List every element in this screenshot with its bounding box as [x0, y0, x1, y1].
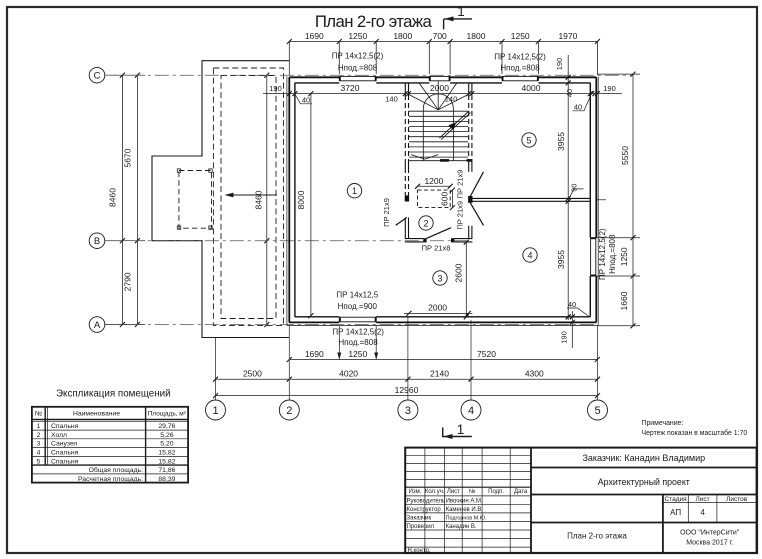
svg-text:4: 4	[527, 250, 532, 260]
window W2 stairs top	[430, 76, 450, 80]
grid line 1	[215, 338, 217, 401]
door D4	[470, 203, 483, 226]
dimension 8460 left	[120, 73, 125, 327]
svg-text:1250: 1250	[619, 247, 629, 266]
window W4 right	[591, 238, 596, 275]
stairs winder arc	[423, 94, 453, 109]
svg-text:190: 190	[269, 84, 282, 93]
wall left	[288, 77, 290, 322]
svg-text:Спальня: Спальня	[51, 450, 79, 457]
svg-text:Экспликация помещений: Экспликация помещений	[56, 389, 171, 400]
interior dimension line top	[263, 91, 622, 96]
svg-text:1: 1	[457, 422, 465, 437]
svg-text:2140: 2140	[430, 369, 449, 379]
svg-text:2: 2	[286, 405, 292, 417]
wall right	[589, 83, 591, 317]
dimension 8460 roof	[264, 73, 269, 327]
stairs bottom V	[411, 155, 438, 160]
stairs arch legs	[422, 109, 424, 161]
label 90 partition	[568, 189, 583, 200]
svg-text:5: 5	[594, 405, 600, 417]
svg-text:Площадь, м²: Площадь, м²	[148, 411, 186, 418]
dimension 8000	[308, 91, 313, 318]
svg-text:Hпод.=808: Hпод.=808	[338, 338, 378, 347]
svg-text:7520: 7520	[477, 349, 496, 359]
svg-text:Санузел: Санузел	[51, 441, 78, 448]
room circle 4	[523, 248, 537, 262]
svg-text:B: B	[94, 236, 100, 247]
arrow to bay	[225, 193, 278, 198]
svg-text:Hпод.=900: Hпод.=900	[338, 302, 378, 311]
svg-text:90: 90	[570, 184, 579, 192]
svg-text:1660: 1660	[619, 291, 629, 310]
dimension 12960	[213, 393, 600, 398]
svg-text:15,82: 15,82	[158, 450, 175, 457]
svg-text:Кол.уч.: Кол.уч.	[425, 489, 445, 495]
label 40 top-right	[573, 96, 591, 111]
svg-text:Наименование: Наименование	[73, 411, 120, 418]
svg-text:Канадин В.: Канадин В.	[446, 524, 477, 530]
dimension 2600 room3	[464, 240, 469, 320]
svg-text:ПР 14х12,5(2): ПР 14х12,5(2)	[598, 228, 607, 280]
svg-text:Лист: Лист	[696, 496, 710, 503]
dimension 2000 room3	[404, 311, 472, 316]
svg-text:Hпод.=808: Hпод.=808	[500, 63, 540, 72]
svg-text:1690: 1690	[305, 349, 324, 359]
svg-text:Проверил: Проверил	[407, 524, 435, 530]
axis line B dash-dot	[105, 240, 467, 242]
wall bottom inner	[295, 316, 590, 318]
axis line C dash-dot	[105, 74, 633, 76]
svg-text:140: 140	[445, 95, 458, 104]
svg-text:1800: 1800	[393, 31, 412, 41]
svg-text:3720: 3720	[341, 83, 360, 93]
svg-text:Н.контр.: Н.контр.	[408, 548, 431, 554]
svg-text:40: 40	[565, 89, 574, 97]
svg-text:Москва 2017 г.: Москва 2017 г.	[686, 539, 733, 546]
dimension 1200	[415, 184, 453, 189]
svg-text:8000: 8000	[296, 190, 306, 209]
svg-text:Листов: Листов	[726, 496, 748, 503]
svg-text:Подп.: Подп.	[488, 489, 504, 495]
window W3 top	[503, 76, 538, 80]
stairs direction line	[440, 111, 471, 140]
svg-text:4000: 4000	[522, 83, 541, 93]
svg-text:1200: 1200	[424, 176, 443, 186]
window W5 bottom	[340, 317, 376, 322]
svg-text:Лист: Лист	[447, 489, 460, 495]
svg-text:1250: 1250	[511, 31, 530, 41]
shaft dashed	[418, 190, 451, 208]
svg-text:3: 3	[405, 405, 411, 417]
svg-text:700: 700	[433, 31, 447, 41]
bottom grid circles 1-5	[206, 400, 608, 420]
wall bottom outer	[289, 321, 596, 323]
svg-text:ПР 14х12,5(2): ПР 14х12,5(2)	[494, 53, 546, 62]
partition P3 room4-room5	[472, 198, 590, 201]
svg-text:C: C	[94, 71, 101, 82]
grid circle B	[89, 233, 105, 249]
svg-text:A: A	[94, 320, 101, 331]
svg-text:Стадия: Стадия	[665, 496, 688, 503]
dashed wall below inner	[221, 76, 276, 319]
grid line 2	[288, 326, 290, 400]
svg-text:ПР 14х12,5(2): ПР 14х12,5(2)	[332, 327, 384, 336]
stairs treads	[409, 111, 468, 157]
svg-text:2: 2	[37, 432, 41, 439]
svg-text:8460: 8460	[107, 188, 117, 207]
svg-text:40: 40	[302, 96, 310, 105]
partition P1 room1-hall	[405, 83, 408, 238]
svg-text:Архитектурный проект: Архитектурный проект	[598, 477, 690, 487]
section mark top	[444, 16, 472, 29]
dimension row 1690 1250 7520	[287, 353, 600, 363]
svg-text:Общая площадь:: Общая площадь:	[89, 466, 144, 474]
door D5	[470, 172, 483, 197]
svg-text:88,39: 88,39	[158, 476, 175, 483]
svg-text:Руководитель: Руководитель	[407, 498, 446, 504]
svg-text:12960: 12960	[395, 385, 419, 395]
svg-text:АП: АП	[670, 508, 681, 517]
svg-text:№: №	[469, 488, 475, 495]
svg-text:ПР 21х9: ПР 21х9	[382, 198, 391, 227]
svg-text:5,26: 5,26	[160, 432, 173, 439]
svg-text:Изм.: Изм.	[409, 489, 422, 495]
svg-text:4: 4	[468, 405, 474, 417]
svg-text:5,20: 5,20	[160, 441, 173, 448]
svg-text:190: 190	[555, 58, 564, 71]
label 40 top-left	[296, 95, 313, 104]
room circle 5	[522, 133, 536, 147]
svg-text:4300: 4300	[525, 369, 544, 379]
svg-text:2600: 2600	[453, 263, 463, 282]
svg-text:Спальня: Спальня	[51, 458, 79, 465]
svg-text:3: 3	[37, 441, 41, 448]
svg-text:1250: 1250	[348, 349, 367, 359]
svg-text:29,76: 29,76	[158, 423, 175, 430]
explication table	[32, 407, 188, 483]
section mark bottom	[443, 427, 472, 439]
window W1 top	[340, 76, 376, 80]
axis line 2 dash-dot	[288, 77, 290, 400]
stairs winder fan	[409, 81, 468, 110]
svg-text:Расчетная площадь:: Расчетная площадь:	[78, 476, 143, 483]
svg-text:2500: 2500	[243, 369, 262, 379]
svg-text:3955: 3955	[556, 250, 566, 269]
svg-text:Заказчик: Заказчик	[407, 515, 432, 521]
svg-text:40: 40	[574, 103, 582, 112]
svg-text:1970: 1970	[558, 31, 577, 41]
grid circle C	[89, 67, 105, 83]
svg-text:2000: 2000	[428, 303, 447, 313]
svg-text:4: 4	[700, 508, 705, 517]
svg-text:ПР 21х9: ПР 21х9	[456, 170, 465, 199]
axis line A dash-dot	[105, 324, 597, 326]
partition P2 hall-rooms45	[469, 83, 472, 238]
room circle 2	[419, 216, 433, 230]
grid line 4	[470, 320, 472, 400]
svg-text:Каменев И.В.: Каменев И.В.	[446, 507, 484, 513]
svg-text:ПР 14х12,5: ПР 14х12,5	[336, 291, 378, 300]
svg-text:Ивочкин А.М.: Ивочкин А.М.	[446, 498, 483, 504]
label 40 bottom-right	[567, 308, 589, 317]
dimension row 2500 4020 2140 4300	[213, 377, 600, 382]
svg-text:Холл: Холл	[51, 432, 67, 439]
svg-text:190: 190	[560, 331, 569, 344]
svg-text:Hпод.=808: Hпод.=808	[608, 234, 617, 274]
svg-text:1: 1	[457, 4, 465, 19]
interior chain right 3955/90/3955	[566, 55, 571, 320]
grid line A	[105, 324, 145, 326]
svg-text:2000: 2000	[430, 83, 449, 93]
room circle 3	[433, 271, 447, 285]
svg-text:Hпод.=808: Hпод.=808	[338, 64, 378, 73]
grid line B	[105, 240, 145, 242]
stairs bottom edge	[409, 160, 468, 162]
wall top outer	[289, 76, 596, 78]
dimension 600	[450, 188, 455, 211]
svg-text:15,82: 15,82	[158, 458, 175, 465]
extension lines windows bottom	[338, 326, 340, 360]
svg-text:1250: 1250	[348, 31, 367, 41]
svg-text:140: 140	[385, 95, 398, 104]
room circle 1	[347, 184, 361, 198]
svg-text:40: 40	[568, 300, 576, 309]
grid line 3	[407, 316, 409, 400]
grid line C	[105, 74, 145, 76]
door D3	[426, 228, 451, 239]
svg-text:ПР 21х9: ПР 21х9	[456, 201, 465, 230]
label 190 bottom wall right	[570, 311, 575, 348]
svg-text:Подгорнов М.Ю.: Подгорнов М.Ю.	[446, 515, 487, 521]
svg-text:1: 1	[352, 186, 357, 196]
top exterior dimension chain	[287, 39, 600, 75]
svg-text:План 2-го этажа: План 2-го этажа	[567, 532, 627, 541]
svg-text:План 2-го этажа: План 2-го этажа	[315, 12, 433, 31]
roof outline left wing	[152, 61, 289, 338]
bay window dashed	[177, 169, 212, 229]
dimension 5670 / 2790	[135, 73, 140, 327]
svg-text:3: 3	[437, 273, 442, 283]
svg-text:ПР 21х8: ПР 21х8	[422, 243, 451, 252]
svg-text:5: 5	[526, 135, 531, 145]
svg-text:Чертеж показан в масштабе 1:70: Чертеж показан в масштабе 1:70	[642, 429, 748, 437]
svg-text:2: 2	[423, 218, 428, 228]
partition P4 hall-room3	[405, 239, 473, 242]
svg-text:71,86: 71,86	[158, 467, 175, 474]
svg-text:4020: 4020	[339, 369, 358, 379]
grid line 5	[597, 326, 599, 400]
svg-text:ООО "ИнтерСити": ООО "ИнтерСити"	[680, 529, 740, 536]
svg-text:Конструктор: Конструктор	[407, 507, 442, 513]
svg-text:5670: 5670	[122, 148, 132, 167]
dashed wall below outer	[213, 68, 283, 325]
svg-text:Дата: Дата	[514, 489, 528, 495]
svg-text:2790: 2790	[122, 272, 132, 291]
svg-text:№: №	[35, 411, 42, 418]
svg-text:190: 190	[603, 84, 616, 93]
svg-text:Заказчик: Канадин Владимир: Заказчик: Канадин Владимир	[582, 453, 705, 463]
svg-text:4: 4	[37, 450, 41, 457]
svg-text:1800: 1800	[467, 31, 486, 41]
svg-text:ПР 14х12,5(2): ПР 14х12,5(2)	[332, 52, 384, 61]
svg-text:5: 5	[37, 458, 41, 465]
svg-text:1: 1	[37, 423, 41, 430]
svg-text:Примечание:: Примечание:	[642, 420, 684, 427]
title block	[405, 448, 756, 553]
wall top inner	[295, 82, 590, 84]
svg-text:5550: 5550	[620, 146, 630, 165]
svg-text:3955: 3955	[556, 132, 566, 151]
door D1	[396, 218, 407, 226]
grid circle A	[89, 317, 105, 333]
svg-text:Спальня: Спальня	[51, 423, 79, 430]
svg-text:600: 600	[439, 192, 449, 206]
right exterior chain 5550/1250/1660	[596, 72, 640, 329]
svg-text:8460: 8460	[254, 190, 264, 209]
svg-text:1: 1	[212, 405, 218, 417]
svg-text:1690: 1690	[305, 31, 324, 41]
